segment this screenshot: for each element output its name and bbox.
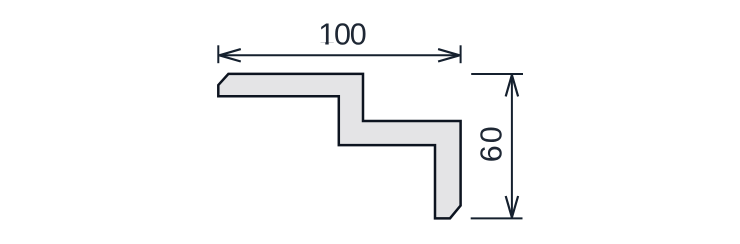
vertical dimension: extension line top [471, 73, 523, 75]
horizontal dimension: extension line right [460, 45, 462, 63]
svg-text:100: 100 [318, 18, 367, 52]
horizontal dimension: extension line left [217, 45, 219, 63]
profile cross-section shape [218, 74, 460, 218]
arrow right [438, 49, 460, 61]
arrow up [506, 75, 518, 97]
vertical dimension: extension line bottom [471, 217, 523, 219]
vertical dimension line [511, 75, 513, 218]
horizontal dimension line [219, 54, 459, 56]
mask serif foot of digit 1 (target uses bar-less 1) [318, 42, 325, 45]
arrow down [506, 196, 518, 218]
svg-text:60: 60 [475, 126, 509, 162]
arrow left [219, 49, 241, 61]
